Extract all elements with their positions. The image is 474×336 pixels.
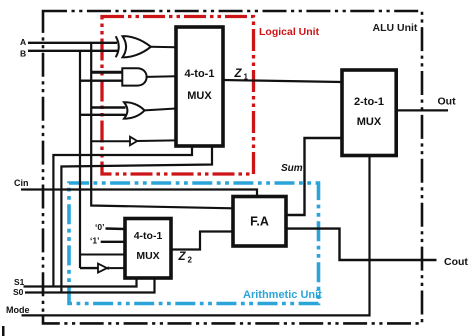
svg-text:Z: Z <box>234 68 243 80</box>
svg-text:4-to-1: 4-to-1 <box>185 68 215 80</box>
full adder F.A box <box>233 197 286 247</box>
wire Cin <box>21 190 257 197</box>
svg-text:MUX: MUX <box>357 116 382 128</box>
wire S1 to MUX1 <box>53 146 192 287</box>
wire B bus vertical <box>79 51 81 268</box>
wire S0 <box>25 278 155 293</box>
svg-text:MUX: MUX <box>187 90 212 102</box>
wire B to OR <box>80 114 126 116</box>
4-to-1 MUX U1 box <box>176 27 223 146</box>
wire '0' input <box>106 227 126 230</box>
svg-text:S1: S1 <box>14 277 25 287</box>
wire buffer2 out <box>110 267 125 269</box>
wire Z2 <box>171 232 233 250</box>
wire A to AND <box>91 71 124 74</box>
svg-text:MUX: MUX <box>136 250 159 262</box>
svg-text:Mode: Mode <box>6 305 30 315</box>
4-to-1 MUX U2 box <box>125 219 171 279</box>
svg-text:2-to-1: 2-to-1 <box>354 96 384 108</box>
svg-text:Arithmetic Unit: Arithmetic Unit <box>243 289 322 301</box>
wire Out <box>396 109 448 111</box>
svg-text:S0: S0 <box>13 287 24 297</box>
wire A bus vertical <box>91 43 233 209</box>
wire Sum <box>286 138 342 215</box>
svg-text:B: B <box>20 49 26 59</box>
stray mark bottom-left <box>2 326 5 336</box>
svg-text:Cin: Cin <box>14 178 29 188</box>
wire Mode <box>22 156 370 316</box>
NOT buffer gate <box>130 137 137 146</box>
wire B to buffer2 <box>80 267 98 269</box>
Arithmetic Unit dashed blue border <box>69 183 319 304</box>
svg-text:4-to-1: 4-to-1 <box>134 230 163 242</box>
svg-text:‘0’: ‘0’ <box>95 222 104 232</box>
wire A to OR <box>91 106 126 108</box>
svg-text:Z: Z <box>178 251 187 263</box>
wire AND out <box>147 75 176 78</box>
ALU Unit outer dashed border <box>43 11 422 323</box>
wire S1 <box>24 278 137 287</box>
wire Cout <box>287 229 437 260</box>
wire Z1 <box>223 80 342 82</box>
svg-text:ALU Unit: ALU Unit <box>373 22 418 34</box>
svg-text:Cout: Cout <box>444 256 468 268</box>
wire B to AND <box>80 79 124 81</box>
svg-text:2: 2 <box>188 256 193 265</box>
Logical Unit dashed red border <box>102 17 254 175</box>
svg-text:‘1’: ‘1’ <box>90 236 99 246</box>
wire buffer out <box>137 139 176 142</box>
wire B <box>28 50 118 52</box>
svg-text:1: 1 <box>244 73 249 82</box>
svg-text:F.A: F.A <box>250 215 269 229</box>
NOT buffer gate 2 <box>98 264 107 273</box>
svg-text:Out: Out <box>438 96 457 108</box>
wire A to NOT buffer <box>91 140 130 142</box>
wire S0 to MUX1 <box>61 146 212 293</box>
svg-text:Sum: Sum <box>281 163 303 174</box>
wire XOR out <box>151 46 177 48</box>
AND gate <box>122 68 146 85</box>
OR gate <box>124 102 145 118</box>
wire OR out <box>145 109 176 111</box>
wire '1' input <box>101 241 125 243</box>
XOR gate <box>116 36 151 57</box>
wire A <box>28 42 117 44</box>
2-to-1 MUX box <box>342 70 396 156</box>
svg-text:Logical Unit: Logical Unit <box>259 26 320 38</box>
wire B to MUX2 input3 <box>80 254 125 256</box>
svg-text:A: A <box>20 37 26 47</box>
